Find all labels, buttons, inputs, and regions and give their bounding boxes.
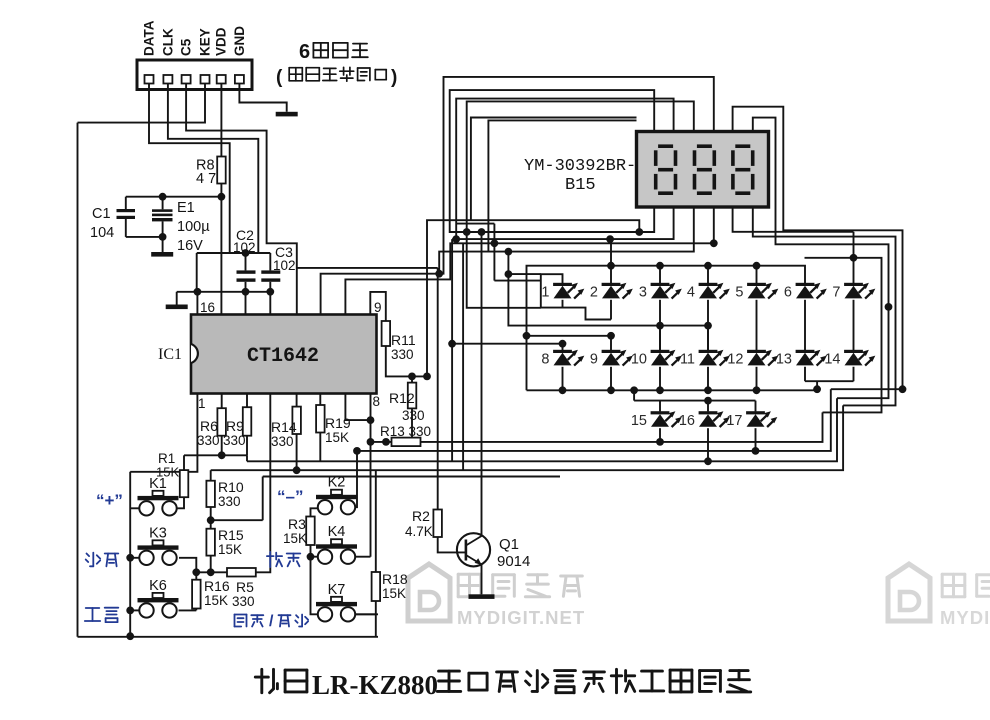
wire IC pin7 (345, 394, 370, 421)
wire bottom rail (78, 636, 379, 638)
wire LED1 bottom stub (562, 300, 564, 308)
LED 5 (747, 283, 778, 299)
wire LED11 top stub (707, 326, 709, 350)
wire VDD pin to R8 (220, 84, 222, 159)
node R16 top (192, 568, 200, 576)
wire IC pin1 to left key column (130, 394, 197, 472)
wire VDD rail y196.7 (126, 196, 222, 198)
resistor R15 (206, 529, 215, 556)
node LED9 top (607, 332, 615, 340)
wire R10-R15 junction (210, 507, 212, 529)
wire LED7 top stub (853, 232, 855, 283)
svg-text:4 7: 4 7 (196, 171, 216, 187)
LED 3 (651, 283, 682, 299)
resistor R9 (246, 394, 248, 408)
resistor R12 (408, 383, 417, 409)
title 利仁LR-KZ880型空气炸锅控制板电路图 (255, 669, 750, 700)
wire LED4 top stub (707, 266, 709, 283)
svg-text:(: ( (276, 67, 283, 88)
svg-text:MYDIGIT.NET: MYDIGIT.NET (457, 607, 585, 628)
wire IC pin9 to R11 (370, 292, 386, 321)
svg-text:16: 16 (200, 300, 215, 315)
watermark logo right (888, 564, 930, 621)
svg-text:R12: R12 (389, 390, 415, 406)
wire LED1 box (541, 274, 611, 319)
node LED7 top (850, 254, 858, 262)
watermark text right (942, 574, 990, 597)
svg-text:104: 104 (90, 225, 114, 241)
caption 6针插件 (connect to main board) (276, 41, 397, 88)
svg-text:R2: R2 (412, 508, 430, 524)
svg-text:3: 3 (639, 285, 647, 301)
wire display top pin1 route (450, 90, 655, 232)
node row3 rail left (630, 386, 638, 394)
transistor Q1 (457, 533, 490, 566)
label 功能 (85, 608, 119, 622)
node K3 left (126, 554, 134, 562)
LED 16 (699, 411, 730, 427)
label 温度 (86, 553, 119, 567)
svg-text:330: 330 (271, 434, 294, 449)
svg-text:R18: R18 (382, 571, 408, 587)
LED 2 (602, 283, 633, 299)
LED 8 (553, 350, 584, 366)
svg-text:K6: K6 (149, 578, 167, 594)
node C2 top (242, 249, 250, 257)
wire display bottom pin4 route to IC pin10 (345, 207, 713, 315)
node VDD rail / E1 (159, 193, 167, 201)
wire riser v463 (462, 243, 464, 470)
node row2 bottom tap (559, 386, 567, 394)
wire CLK pin (168, 84, 258, 254)
svg-text:10: 10 (631, 352, 647, 368)
svg-text:YM-30392BR-: YM-30392BR- (524, 157, 636, 176)
wire display bottom pin5 / LED7 rail (733, 207, 882, 413)
wire display top pin5 wrap right (733, 107, 903, 390)
wire R2 top riser to pin12 route (437, 268, 439, 510)
wire R9 bottom (246, 436, 248, 456)
label 启动/取消 (235, 615, 264, 627)
wire LED2 riser (610, 239, 612, 283)
switch K4 (316, 539, 357, 564)
wire row2 bottom rail (527, 336, 818, 391)
wire LED15 bottom to bus A (659, 428, 661, 442)
wire LED8 top stub (562, 344, 564, 350)
node v508 on h251.6 (505, 248, 513, 256)
svg-text:17: 17 (726, 413, 742, 429)
LED 14 (844, 350, 875, 366)
svg-text:K7: K7 (328, 582, 346, 598)
node VDD rail / R8 (218, 193, 226, 201)
wire K7 right to R18 (356, 613, 378, 615)
LED 4 (699, 283, 730, 299)
wire bus A (421, 412, 823, 442)
wire LED15 top stub (659, 401, 661, 412)
svg-text:R3: R3 (288, 516, 306, 532)
connector J1 6-pin header (137, 60, 252, 90)
node LED3 column h325.6 (656, 322, 664, 330)
svg-text:7: 7 (832, 285, 840, 301)
LED 9 (602, 350, 633, 366)
svg-text:6: 6 (299, 41, 310, 63)
svg-text:12: 12 (727, 352, 743, 368)
wire LED10 top stub (659, 326, 661, 350)
svg-text:16V: 16V (177, 238, 203, 254)
wire IC pin4 to R5 (256, 394, 270, 573)
svg-text:CLK: CLK (160, 28, 175, 56)
svg-text:15: 15 (631, 413, 647, 429)
node R12 top tap (408, 373, 416, 381)
switch K2 (316, 490, 357, 515)
op-amp U1 IC1 CT1642 body (191, 315, 377, 394)
wire row2 bottom stub (659, 367, 661, 391)
node LED16 bus C (704, 457, 712, 465)
wire R12 bottom to pin8 column (411, 408, 413, 438)
svg-text:R11: R11 (391, 332, 416, 348)
wire display left h223 (456, 223, 494, 225)
node R14 bottom on bus D (293, 466, 301, 474)
wire K3 to R16/R5 node (179, 558, 196, 573)
svg-text:15K: 15K (204, 593, 228, 608)
svg-text:8: 8 (373, 394, 381, 409)
svg-text:R6: R6 (200, 418, 218, 434)
resistor R19 (319, 394, 321, 406)
svg-text:MYDIGI: MYDIGI (940, 607, 990, 628)
capacitor C3 (261, 244, 295, 315)
wire GND pin to ground (239, 84, 286, 112)
node LED8 top (559, 340, 567, 348)
wire row1 top rail (527, 266, 806, 336)
wire LED2 bottom stub (610, 300, 612, 320)
wire R1 bottom to K1 right pin (178, 497, 185, 508)
wire R2 bottom to Q1 base (438, 537, 466, 552)
node h335.8 left (523, 332, 531, 340)
wire rail381 drop (816, 381, 818, 389)
wire v508 LED10/11 feed (508, 252, 708, 326)
ground symbol connector GND (276, 112, 298, 117)
wire rail over C2 (197, 252, 271, 254)
wire LED17 bottom to bus B (755, 428, 757, 451)
svg-text:“+”: “+” (96, 491, 123, 510)
wire bus D (211, 405, 843, 470)
node pin8/R13 (367, 438, 375, 446)
wire LED6 to LED13 column (804, 300, 806, 350)
LED 7 (844, 283, 875, 299)
resistor R18 (375, 572, 377, 573)
wire R5 rail (196, 571, 227, 573)
wire row2 bottom stub (562, 367, 564, 391)
capacitor E1 electrolytic (152, 197, 210, 254)
resistor R16 (195, 572, 197, 579)
wire LED4 to LED11 column (707, 300, 709, 350)
svg-text:6: 6 (784, 285, 792, 301)
resistor R5 (227, 568, 256, 577)
wire drop to pin16 rail (196, 253, 198, 292)
wire IC pin8 column (370, 394, 372, 557)
wire display left loop e2 (488, 120, 636, 251)
wire bus E (263, 476, 560, 478)
switch K1 (138, 491, 179, 516)
wire LED5 top stub (756, 266, 758, 283)
svg-text:“–”: “–” (277, 487, 303, 506)
svg-text:R16: R16 (204, 578, 230, 594)
svg-text:330: 330 (232, 594, 255, 609)
svg-text:R10: R10 (218, 479, 244, 495)
watermark logo 数码之家 (408, 564, 450, 621)
wire R12 top stub (411, 376, 413, 382)
ground symbol near pin16 (166, 305, 188, 310)
wire display top pin6 wrap right (753, 118, 889, 399)
wire row2 bottom stub (756, 367, 758, 391)
wire display top pin3 route (467, 101, 694, 307)
node row1 rail tap (656, 262, 664, 270)
wire R3 bottom to K4 left (311, 545, 318, 557)
wire LED9 rail h335.8 (527, 336, 612, 350)
svg-text:Q1: Q1 (499, 536, 519, 553)
capacitor C1 (90, 197, 135, 241)
wire R15 bottom to R5 rail (210, 556, 212, 573)
wire LED5 to LED12 column (756, 300, 758, 350)
node E1 bottom (159, 233, 167, 241)
svg-text:R5: R5 (236, 579, 254, 595)
LED 1 (553, 283, 584, 299)
wire left key column (129, 472, 131, 637)
node LED1 box feed (505, 270, 513, 278)
resistor R1 (183, 455, 185, 470)
wire C5 pin to IC pin12 (186, 84, 297, 315)
svg-text:C5: C5 (179, 38, 194, 56)
node row1 rail tap (704, 262, 712, 270)
svg-text:15K: 15K (283, 531, 307, 546)
ground symbol below E1 (151, 252, 173, 257)
node LED4 column h325.6 (704, 322, 712, 330)
wire R11 bottom rail (386, 346, 427, 376)
wire display top pin4 route to IC pin11 (321, 77, 714, 315)
node pin8/pin7 (367, 416, 375, 424)
svg-text:15K: 15K (218, 542, 242, 557)
node rail381 drop (813, 385, 821, 393)
wire DATA pin (149, 84, 230, 254)
svg-text:LR-KZ880: LR-KZ880 (312, 670, 438, 700)
svg-text:102: 102 (273, 258, 296, 273)
wire R14 bottom to bus D (296, 434, 298, 470)
svg-text:B15: B15 (565, 176, 596, 195)
svg-text:330: 330 (197, 433, 220, 448)
node row1 rail tap (607, 262, 615, 270)
wire bus B from K2 (349, 389, 831, 507)
wire R8 bottom to IC pin15 (220, 184, 222, 315)
label 旋转 (267, 552, 300, 567)
node K4 left (307, 553, 315, 561)
wire KEY pin to left border (78, 84, 206, 123)
wire LED16 top stub (707, 401, 709, 412)
switch K6 (138, 593, 179, 618)
svg-text:330: 330 (218, 494, 241, 509)
svg-text:15K: 15K (325, 430, 349, 445)
wire K3 left pin (130, 557, 139, 559)
svg-text:K4: K4 (328, 524, 346, 540)
wire pin9 net riser v427 (427, 220, 639, 376)
wire C1-E1 bottom rail (126, 236, 163, 238)
svg-text:GND: GND (232, 26, 247, 56)
wire bus C (247, 398, 837, 461)
wire left border vertical (77, 123, 79, 637)
node row2 bottom tap (753, 386, 761, 394)
svg-text:/: / (269, 613, 274, 630)
svg-text:100µ: 100µ (177, 219, 210, 235)
capacitor C2 (233, 227, 256, 315)
svg-text:R9: R9 (226, 418, 244, 434)
node key column bottom (126, 632, 134, 640)
wire R18 top riser (375, 470, 377, 572)
resistor R14 (296, 394, 298, 407)
wire IC pin11-pin12 routes (297, 267, 438, 269)
resistor R10 (206, 481, 215, 507)
wire LED16 bottom to bus C (707, 428, 709, 461)
node pin16 (194, 288, 202, 296)
svg-text:VDD: VDD (214, 27, 229, 56)
node LED17 bus B (752, 447, 760, 455)
svg-text:2: 2 (590, 285, 598, 301)
watermark text 数码之家 (458, 574, 582, 597)
node LED15 bus A (656, 438, 664, 446)
connector pin labels DATA CLK C5 KEY VDD GND (142, 20, 247, 56)
svg-text:R14: R14 (271, 419, 297, 435)
node v439.2 on pin11 route (435, 270, 443, 278)
LED 10 (651, 350, 682, 366)
svg-text:C1: C1 (92, 206, 111, 222)
svg-text:DATA: DATA (142, 20, 157, 56)
svg-text:K1: K1 (149, 476, 167, 492)
wire R6-R1-R9 rail (184, 454, 247, 456)
LED 6 (796, 283, 827, 299)
switch K3 (138, 540, 179, 565)
wire LED13/14 bottom rail (805, 367, 854, 381)
wire R10 top riser (210, 470, 212, 481)
svg-text:R19: R19 (325, 415, 351, 431)
wire LED3 top stub (659, 266, 661, 283)
node R13 left (382, 438, 390, 446)
wire row2 bottom stub (707, 367, 709, 391)
svg-text:14: 14 (824, 352, 840, 368)
node v494 on h243.3 (491, 239, 499, 247)
wire LED1 box top link (508, 273, 540, 275)
resistor R11 (382, 321, 391, 346)
LED 17 (746, 411, 777, 427)
svg-text:16: 16 (679, 413, 695, 429)
node row2 bottom tap (656, 386, 664, 394)
wire IC pin16 stub (196, 292, 198, 315)
wire K1 left pin (130, 507, 139, 509)
wire pin16 ground rail (177, 291, 271, 293)
wire LED8 feed from h239.1 (452, 239, 562, 461)
wire p3b to v439.2 (439, 207, 694, 274)
LED 15 (651, 411, 682, 427)
wire display left loop e1 (471, 118, 637, 221)
svg-text:1: 1 (541, 285, 549, 301)
svg-text:9014: 9014 (497, 553, 530, 570)
svg-text:4.7K: 4.7K (405, 524, 433, 539)
wire K4-K7 left link (311, 557, 318, 615)
node right bus (885, 303, 893, 311)
wire R16 bottom to K6 (179, 609, 197, 611)
node row2 bottom tap (607, 386, 615, 394)
node K2 riser / bus B (353, 447, 361, 455)
svg-text:): ) (391, 67, 397, 88)
wire v494 feed (494, 224, 540, 281)
svg-text:13: 13 (776, 352, 792, 368)
resistor R8 (217, 157, 226, 184)
node LED2 riser on h239.1 (606, 235, 614, 243)
wire LED7 to LED14 column (853, 300, 855, 350)
wire K4 right pin to pin8 column (356, 556, 371, 558)
display YM-30392BR-B15 body (637, 132, 769, 208)
wire R18 bottom to bottom rail (356, 601, 376, 637)
svg-text:9: 9 (374, 300, 382, 315)
node C2 bottom (242, 288, 250, 296)
wire R9 column to bus C (246, 455, 248, 461)
wire Q1 collector riser (481, 232, 483, 536)
wire R19 bottom to bus C (319, 433, 321, 462)
wire R6 bottom to rail (221, 436, 223, 456)
wire row3 top rail (634, 390, 755, 400)
svg-text:330: 330 (223, 433, 246, 448)
wire Q1 emitter to ground (481, 565, 483, 595)
wire LED3 to LED10 column (659, 300, 661, 350)
LED 11 (699, 350, 730, 366)
LED 13 (796, 350, 827, 366)
wire R13 left lead (371, 441, 392, 443)
node row2 bottom tap (704, 386, 712, 394)
wire to ground left of IC (176, 292, 178, 305)
wire junction to pin4 column (211, 477, 263, 521)
node row1 rail tap (753, 262, 761, 270)
svg-text:R15: R15 (218, 527, 244, 543)
LED 12 (747, 350, 778, 366)
svg-text:KEY: KEY (198, 28, 213, 56)
svg-text:9: 9 (590, 352, 598, 368)
switch K7 (316, 597, 357, 622)
node v452 h343.7 (448, 340, 456, 348)
resistor R13 (392, 438, 421, 447)
node R11 rail / v427 (423, 373, 431, 381)
svg-text:CT1642: CT1642 (247, 345, 319, 368)
node K6 left (126, 607, 134, 615)
node bus stair crossing (899, 385, 907, 393)
svg-text:330: 330 (391, 347, 414, 362)
node p1b rail crossing v466.7 (463, 228, 471, 236)
svg-text:K2: K2 (328, 475, 346, 491)
svg-text:11: 11 (680, 352, 695, 368)
node v427 h232 join (635, 228, 643, 236)
node C3 bottom (266, 288, 274, 296)
node LED16 top tap (704, 397, 712, 405)
resistor R2 (433, 510, 442, 538)
svg-text:R13 330: R13 330 (380, 424, 431, 439)
svg-text:K3: K3 (149, 525, 167, 541)
svg-text:1: 1 (198, 396, 206, 411)
svg-text:15K: 15K (382, 586, 406, 601)
svg-text:4: 4 (687, 285, 695, 301)
wire K6 left pin (130, 609, 139, 611)
node p4b (710, 239, 718, 247)
wire display top pin2 route (456, 99, 673, 240)
ground symbol Q1 emitter (469, 594, 495, 599)
svg-text:8: 8 (541, 352, 549, 368)
node p1b riser / v481 (478, 228, 486, 236)
svg-text:E1: E1 (177, 200, 195, 216)
wire LED17 top stub (755, 401, 757, 412)
